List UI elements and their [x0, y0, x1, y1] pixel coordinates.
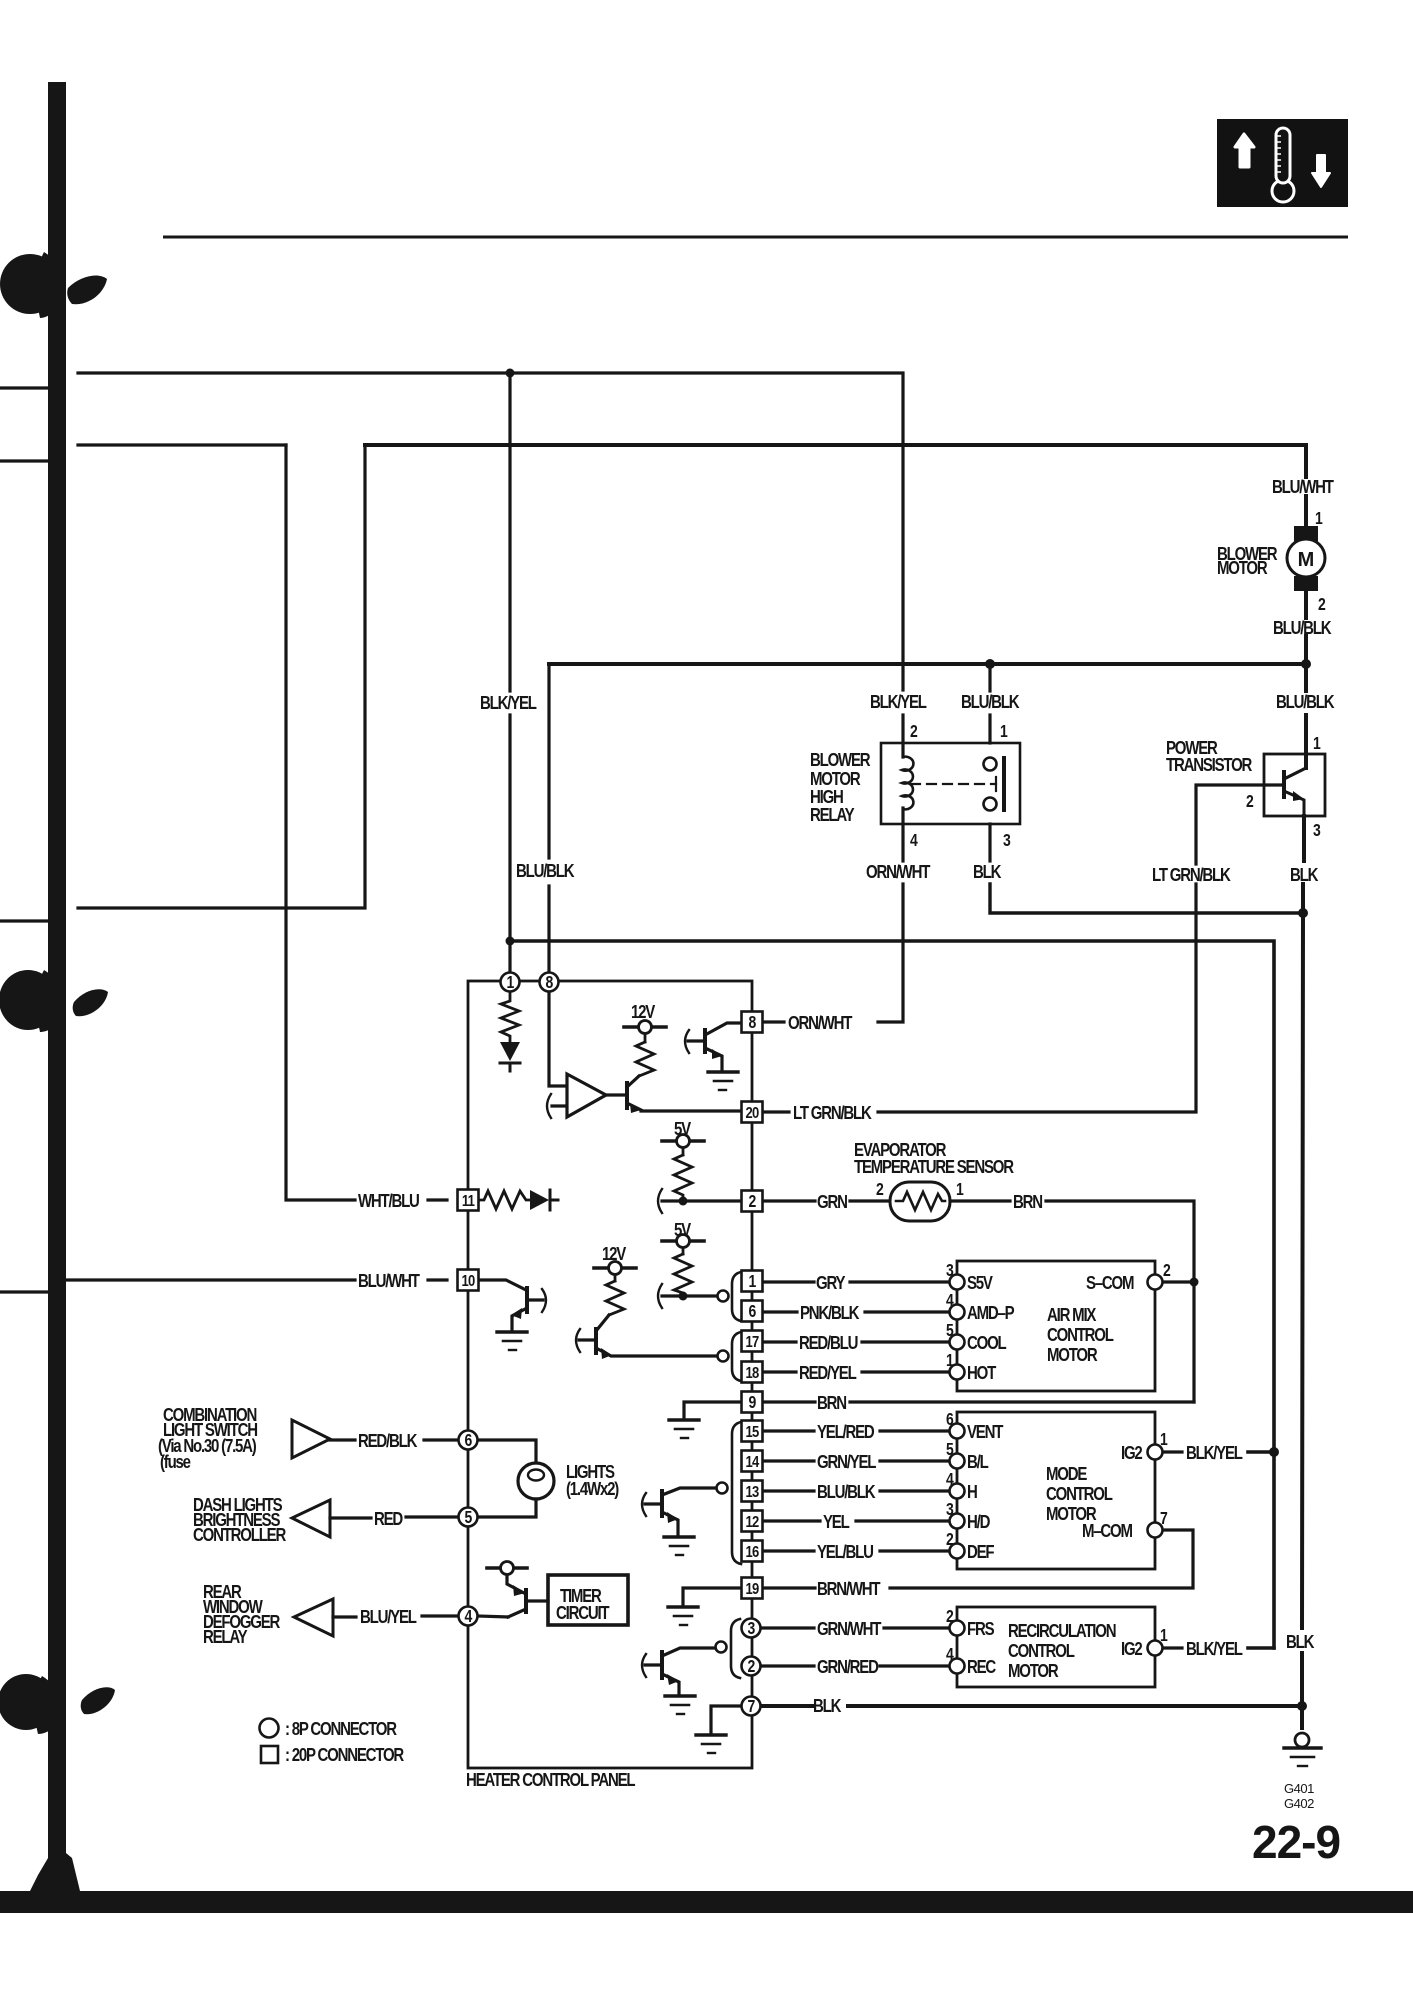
svg-text:17: 17 — [746, 1334, 760, 1351]
wire BLK drop from power transistor — [1302, 816, 1306, 861]
svg-text:BRN: BRN — [1013, 1192, 1042, 1213]
terminal IG2 mode — [1148, 1445, 1163, 1460]
wire BLU/WHT rail left stub — [78, 443, 286, 446]
svg-text:GRN/YEL: GRN/YEL — [817, 1452, 876, 1473]
wire left return — [78, 445, 365, 908]
bracket pins 15-16 — [732, 1422, 741, 1564]
wire PNK/BLK — [763, 1310, 797, 1313]
MAIN WIRING — [0, 369, 1325, 1769]
off-page arrow dash lights brightness controller — [292, 1500, 330, 1537]
wire BLU/WHT rail to blower motor — [365, 445, 1306, 477]
top separator rule — [163, 236, 1348, 239]
relay actuator dashed link — [911, 783, 996, 785]
ground (Q4 emitter) — [497, 1332, 527, 1350]
svg-text:9: 9 — [749, 1394, 757, 1413]
svg-text:1: 1 — [1315, 510, 1323, 529]
svg-text:4: 4 — [946, 1646, 954, 1665]
svg-text:8: 8 — [749, 1014, 757, 1033]
connector pin 3 (8P) — [742, 1619, 761, 1638]
connector pin 14 (20P) — [742, 1451, 763, 1472]
svg-text:20: 20 — [746, 1105, 760, 1122]
svg-text:7: 7 — [1160, 1510, 1167, 1529]
ground G401/G402 — [1284, 1733, 1321, 1766]
svg-text:HOT: HOT — [967, 1363, 997, 1384]
op-amp U1 buffer — [547, 1074, 627, 1118]
power source 5V (lower) — [662, 1235, 704, 1255]
svg-text:DEF: DEF — [967, 1542, 994, 1563]
terminal B/L — [950, 1454, 965, 1469]
svg-text:S5V: S5V — [967, 1273, 994, 1294]
wire S-COM — [1162, 1280, 1194, 1283]
svg-text:CONTROL: CONTROL — [1008, 1641, 1075, 1662]
svg-text:CIRCUIT: CIRCUIT — [556, 1603, 610, 1624]
svg-text:AMD–P: AMD–P — [967, 1303, 1015, 1324]
svg-text:BLU/WHT: BLU/WHT — [358, 1271, 421, 1292]
wire GRN/RED — [761, 1664, 814, 1667]
svg-text:1: 1 — [1000, 723, 1008, 742]
wire relay pin4 bottom — [901, 808, 904, 861]
svg-text:BLU/BLK: BLU/BLK — [1276, 692, 1335, 713]
wire GRN/WHT — [761, 1626, 814, 1629]
connector pin 13 (20P) — [742, 1481, 763, 1502]
diode D1 — [500, 1042, 520, 1061]
svg-text:FRS: FRS — [967, 1619, 994, 1640]
svg-text:BLU/BLK: BLU/BLK — [1273, 618, 1332, 639]
HEATER CONTROL PANEL box — [468, 981, 752, 1768]
svg-text:GRY: GRY — [816, 1273, 845, 1294]
connector pin 16 (20P) — [742, 1541, 763, 1562]
svg-text:18: 18 — [746, 1365, 760, 1382]
svg-text:: 8P CONNECTOR: : 8P CONNECTOR — [285, 1719, 397, 1740]
svg-text:MOTOR: MOTOR — [1217, 558, 1268, 579]
svg-text:8: 8 — [546, 974, 554, 993]
power source 12V (panel upper) — [624, 1021, 666, 1043]
svg-text:ORN/WHT: ORN/WHT — [788, 1013, 853, 1034]
svg-text:YEL: YEL — [823, 1512, 850, 1533]
svg-text:1: 1 — [956, 1181, 964, 1200]
wire BLU/BLK trunk — [549, 662, 1306, 666]
svg-text:RED/BLK: RED/BLK — [358, 1431, 417, 1452]
svg-text:COOL: COOL — [967, 1333, 1007, 1354]
wire YEL — [763, 1519, 820, 1522]
svg-text:1: 1 — [749, 1273, 757, 1292]
svg-text:2: 2 — [749, 1193, 757, 1212]
svg-text:CONTROLLER: CONTROLLER — [193, 1525, 286, 1546]
svg-text:2: 2 — [1163, 1262, 1171, 1281]
connector pin 17 (20P) — [742, 1331, 763, 1352]
continuation arc Q5 base — [642, 1493, 646, 1516]
resistor R4 — [674, 1155, 692, 1201]
svg-text:M–COM: M–COM — [1082, 1521, 1132, 1542]
svg-text:HEATER CONTROL PANEL: HEATER CONTROL PANEL — [466, 1770, 635, 1791]
svg-text:LT GRN/BLK: LT GRN/BLK — [1152, 865, 1231, 886]
resistor R5 — [674, 1254, 692, 1296]
transistor Q1 — [627, 1076, 742, 1113]
svg-text:1: 1 — [507, 974, 515, 993]
ground (Q2 emitter) — [708, 1072, 738, 1090]
svg-text:BLK/YEL: BLK/YEL — [1186, 1639, 1243, 1660]
wire GRN/YEL — [763, 1459, 814, 1462]
svg-text:BLOWER: BLOWER — [810, 750, 871, 771]
svg-text:1: 1 — [946, 1352, 954, 1371]
connector pin 15 (20P) — [742, 1421, 763, 1442]
wire page-edge stubs — [0, 386, 52, 389]
svg-text:4: 4 — [910, 832, 918, 851]
wire RED/BLK — [330, 1438, 355, 1441]
svg-text:: 20P CONNECTOR: : 20P CONNECTOR — [285, 1745, 404, 1766]
svg-text:1: 1 — [1160, 1431, 1168, 1450]
terminal REC — [950, 1659, 965, 1674]
svg-text:BLK: BLK — [1286, 1632, 1314, 1653]
svg-text:H/D: H/D — [967, 1512, 990, 1533]
svg-text:1: 1 — [1313, 735, 1321, 754]
svg-text:3: 3 — [1003, 832, 1011, 851]
svg-text:2: 2 — [1246, 793, 1254, 812]
resistor R2 (pin 11) — [478, 1191, 529, 1209]
svg-text:19: 19 — [746, 1581, 760, 1598]
svg-text:BLK/YEL: BLK/YEL — [1186, 1443, 1243, 1464]
svg-text:GRN/WHT: GRN/WHT — [817, 1619, 882, 1640]
connector pin 6 (20P) — [742, 1301, 763, 1322]
svg-text:ORN/WHT: ORN/WHT — [866, 862, 931, 883]
svg-text:IG2: IG2 — [1121, 1639, 1142, 1660]
continuation arc Q3 base — [576, 1329, 580, 1352]
wire YEL/RED — [763, 1429, 814, 1432]
svg-text:15: 15 — [746, 1424, 760, 1441]
timer circuit box — [548, 1575, 628, 1625]
svg-text:WHT/BLU: WHT/BLU — [358, 1191, 420, 1212]
legend 20P connector symbol — [261, 1746, 278, 1763]
transistor Q7 timer PNP — [477, 1562, 548, 1618]
connector pin 9 (20P) — [742, 1392, 763, 1413]
mode control motor box — [957, 1412, 1155, 1569]
wire relay pin2 top — [901, 715, 904, 757]
lamp L1 lights — [478, 1440, 554, 1517]
svg-text:M: M — [1298, 549, 1315, 571]
svg-text:PNK/BLK: PNK/BLK — [800, 1303, 859, 1324]
svg-text:MOTOR: MOTOR — [1008, 1661, 1059, 1682]
node junction 5V to pins 1/6 — [679, 1292, 688, 1301]
continuation arc Q6 base — [642, 1654, 646, 1677]
continuation arc Q4 base — [542, 1289, 546, 1312]
svg-text:5V: 5V — [674, 1220, 692, 1241]
svg-text:BRN: BRN — [817, 1393, 846, 1414]
svg-text:BLK: BLK — [813, 1696, 841, 1717]
svg-text:BLK/YEL: BLK/YEL — [870, 692, 927, 713]
resistor R3 (12V pull-up) — [636, 1042, 654, 1076]
connector pin 1 (20P) — [742, 1271, 763, 1292]
transistor Q5 (mode group) — [642, 1488, 716, 1536]
svg-text:YEL/BLU: YEL/BLU — [817, 1542, 874, 1563]
temperature control icon — [1217, 119, 1348, 207]
wire BLU/WHT to pin 10 — [63, 1278, 355, 1281]
svg-text:12V: 12V — [602, 1244, 627, 1265]
terminal M-COM — [1148, 1523, 1163, 1538]
svg-text:16: 16 — [746, 1544, 760, 1561]
svg-text:14: 14 — [746, 1454, 760, 1471]
svg-text:2: 2 — [946, 1608, 954, 1627]
connector pin 18 (20P) — [742, 1362, 763, 1383]
wire BLK/YEL drop to panel — [508, 373, 511, 691]
resistor R6 — [606, 1281, 624, 1315]
terminal DEF — [950, 1544, 965, 1559]
air mix control motor box — [957, 1261, 1155, 1391]
svg-text:2: 2 — [1318, 596, 1326, 615]
svg-text:REC: REC — [967, 1657, 996, 1678]
node junction at heater feed — [506, 937, 515, 946]
node junction 5V to pin 2 — [679, 1197, 688, 1206]
svg-text:VENT: VENT — [967, 1422, 1004, 1443]
svg-text:5: 5 — [465, 1509, 473, 1528]
svg-text:IG2: IG2 — [1121, 1443, 1142, 1464]
svg-text:3: 3 — [1313, 822, 1321, 841]
connector pin 12 (20P) — [742, 1511, 763, 1532]
terminal S5V — [950, 1275, 965, 1290]
svg-text:12V: 12V — [631, 1002, 656, 1023]
svg-text:12: 12 — [746, 1514, 760, 1531]
wire base LT GRN/BLK — [1196, 785, 1284, 864]
svg-text:RED/BLU: RED/BLU — [799, 1333, 858, 1354]
svg-text:BLU/BLK: BLU/BLK — [961, 692, 1020, 713]
svg-text:4: 4 — [465, 1608, 473, 1627]
terminal H/D — [950, 1514, 965, 1529]
svg-text:3: 3 — [946, 1262, 954, 1281]
wire WHT/BLU drop — [286, 445, 355, 1200]
wire RED/YEL — [763, 1370, 796, 1373]
wire power transistor pin1 drop BLU/BLK — [1304, 664, 1308, 691]
svg-text:BLK: BLK — [973, 862, 1001, 883]
evaporator temperature sensor RT1 — [763, 1182, 1194, 1402]
svg-text:CONTROL: CONTROL — [1047, 1325, 1114, 1346]
svg-text:RED/YEL: RED/YEL — [799, 1363, 857, 1384]
terminal HOT — [950, 1365, 965, 1380]
svg-text:1: 1 — [1160, 1627, 1168, 1646]
power transistor Q8 — [763, 754, 1325, 1112]
off-page arrow combination light switch — [292, 1420, 330, 1458]
ground (pin 19) — [668, 1588, 742, 1625]
node junction IG2 feed — [1269, 1447, 1279, 1457]
svg-text:BLU/YEL: BLU/YEL — [360, 1607, 417, 1628]
svg-text:13: 13 — [746, 1484, 760, 1501]
diode D2 — [530, 1190, 549, 1210]
connector pin 1 (8P top) — [501, 973, 520, 992]
bracket pins 3-2 — [731, 1619, 740, 1678]
ground (pin 9) — [669, 1402, 742, 1438]
svg-text:RECIRCULATION: RECIRCULATION — [1008, 1621, 1116, 1642]
svg-text:10: 10 — [462, 1273, 476, 1290]
svg-text:3: 3 — [748, 1620, 756, 1639]
wire IG2 recirc BLK/YEL — [1161, 1646, 1182, 1649]
svg-text:6: 6 — [465, 1432, 473, 1451]
wire BLU/YEL — [333, 1615, 356, 1618]
svg-text:2: 2 — [910, 723, 918, 742]
wire BLK/YEL feed to motors — [510, 941, 1274, 1648]
relay contact — [984, 758, 997, 771]
connector tap circle pin 13 — [717, 1483, 728, 1494]
svg-text:YEL/RED: YEL/RED — [817, 1422, 875, 1443]
node junction BLU/BLK at relay — [985, 659, 995, 669]
connector pin 10 (20P left) — [458, 1270, 479, 1291]
connector pin 2 (8P) — [742, 1657, 761, 1676]
svg-text:4: 4 — [946, 1292, 954, 1311]
svg-text:S–COM: S–COM — [1086, 1273, 1134, 1294]
svg-text:BLK/YEL: BLK/YEL — [480, 693, 537, 714]
relay K1 blower motor high relay — [763, 715, 1303, 1022]
continuation arc GRN — [658, 1189, 662, 1213]
connector pin 8 (8P top) — [540, 973, 559, 992]
node junction BLU/BLK trunk right — [1301, 659, 1311, 669]
wire BLK bottom — [761, 1704, 812, 1708]
wire relay pin1 drop BLU/BLK — [988, 664, 991, 691]
wire GRY — [763, 1280, 814, 1283]
node junction BLK ground — [1297, 1701, 1307, 1711]
svg-text:5V: 5V — [674, 1119, 692, 1140]
svg-text:RED: RED — [374, 1509, 403, 1530]
relay coil — [902, 757, 913, 810]
node junction BLK at transistor drop — [1298, 908, 1308, 918]
svg-text:BLU/BLK: BLU/BLK — [516, 861, 575, 882]
svg-text:3: 3 — [946, 1501, 954, 1520]
blower motor M1 — [1287, 496, 1325, 664]
svg-text:RELAY: RELAY — [810, 805, 854, 826]
resistor R1 (from connector 1) — [501, 991, 519, 1041]
wire M-COM to pin 19 BRN/WHT — [890, 1530, 1193, 1588]
transistor Q3 — [576, 1315, 716, 1359]
svg-text:G401: G401 — [1284, 1781, 1314, 1796]
connector pin 20 (20P) — [742, 1102, 763, 1123]
svg-text:(1.4Wx2): (1.4Wx2) — [566, 1479, 619, 1500]
legend 8P connector symbol — [260, 1719, 279, 1738]
ground (Q5 emitter) — [664, 1537, 694, 1555]
connector tap circle pins 1-6 — [718, 1291, 729, 1302]
svg-text:7: 7 — [748, 1698, 755, 1717]
terminal S-COM — [1148, 1275, 1163, 1290]
connector pin 19 (20P) — [742, 1578, 763, 1599]
svg-text:6: 6 — [749, 1303, 757, 1322]
svg-text:MOTOR: MOTOR — [1047, 1345, 1098, 1366]
power source 12V (lower) — [594, 1262, 636, 1282]
svg-text:CONTROL: CONTROL — [1046, 1484, 1113, 1505]
connector tap circle pins 3-2 — [716, 1642, 727, 1653]
continuation arc 5V line — [658, 1284, 662, 1308]
connector tap circle pins 17-18 — [718, 1351, 729, 1362]
connector pin 11 (20P left) — [458, 1190, 479, 1211]
connector pin 7 (8P) — [742, 1697, 761, 1716]
ground (pin 7) — [696, 1706, 742, 1753]
svg-text:BLU/BLK: BLU/BLK — [817, 1482, 876, 1503]
continuation arc op-amp input — [547, 1094, 551, 1118]
svg-text:6: 6 — [946, 1411, 954, 1430]
wire relay pin3 bottom BLK — [988, 824, 991, 861]
power source 5V (upper) — [662, 1135, 704, 1156]
bracket pins 17-18 — [732, 1332, 741, 1381]
terminal IG2 recirc — [1148, 1641, 1163, 1656]
off-page arrow rear window defogger relay — [294, 1599, 333, 1636]
svg-text:(fuse: (fuse — [160, 1452, 191, 1473]
svg-text:MODE: MODE — [1046, 1464, 1087, 1485]
wire YEL/BLU — [763, 1549, 814, 1552]
node junction BLK/YEL rail — [506, 369, 515, 378]
terminal FRS — [950, 1621, 965, 1636]
svg-text:G402: G402 — [1284, 1796, 1314, 1811]
svg-text:5: 5 — [946, 1322, 954, 1341]
wire IG2 mode BLK/YEL — [1161, 1450, 1182, 1453]
svg-text:GRN/RED: GRN/RED — [817, 1657, 879, 1678]
wire RED — [330, 1516, 371, 1519]
transistor Q2 — [685, 1023, 742, 1070]
svg-text:BLU/WHT: BLU/WHT — [1272, 477, 1335, 498]
terminal AMD-P — [950, 1305, 965, 1320]
connector pin 8 (20P) — [742, 1012, 763, 1033]
svg-text:22-9: 22-9 — [1252, 1816, 1340, 1868]
svg-text:5: 5 — [946, 1441, 954, 1460]
wire BLU/BLK to H — [763, 1489, 814, 1492]
wire BRN to pin 9 — [763, 1400, 815, 1403]
svg-text:H: H — [967, 1482, 977, 1503]
wire BLU/BLK drop to connector 8 — [547, 664, 550, 858]
terminal VENT — [950, 1424, 965, 1439]
connector pin 6 (8P left) — [459, 1431, 478, 1450]
svg-text:BLK: BLK — [1290, 865, 1318, 886]
svg-text:LT GRN/BLK: LT GRN/BLK — [793, 1103, 872, 1124]
svg-text:2: 2 — [946, 1531, 954, 1550]
svg-text:AIR MIX: AIR MIX — [1047, 1305, 1096, 1326]
ground (Q6 emitter) — [665, 1696, 695, 1714]
terminal COOL — [950, 1335, 965, 1350]
connector pin 4 (8P left) — [459, 1607, 478, 1626]
bracket pins 1-6 — [732, 1272, 741, 1321]
connector pin 2 (20P) — [742, 1191, 763, 1212]
svg-text:2: 2 — [876, 1181, 884, 1200]
svg-text:BRN/WHT: BRN/WHT — [817, 1579, 881, 1600]
terminal H — [950, 1484, 965, 1499]
node junction S-COM/BRN — [1190, 1278, 1199, 1287]
svg-text:4: 4 — [946, 1471, 954, 1490]
svg-text:2: 2 — [748, 1658, 756, 1677]
transistor Q4 (at pin 10) — [478, 1280, 546, 1331]
svg-text:TEMPERATURE SENSOR: TEMPERATURE SENSOR — [854, 1157, 1014, 1178]
svg-text:RELAY: RELAY — [203, 1627, 247, 1648]
svg-text:GRN: GRN — [817, 1192, 847, 1213]
wire connector 8 to op-amp — [549, 991, 566, 1086]
svg-text:B/L: B/L — [967, 1452, 989, 1473]
recirculation control motor box — [957, 1607, 1155, 1687]
continuation arc Q2 base — [685, 1030, 689, 1053]
transistor Q6 (recirc group) — [642, 1648, 715, 1695]
connector pin 5 (8P left) — [459, 1508, 478, 1527]
wire RED/BLU — [763, 1340, 796, 1343]
svg-text:11: 11 — [462, 1193, 475, 1210]
wire top rail BLK/YEL — [78, 373, 903, 690]
svg-text:TRANSISTOR: TRANSISTOR — [1166, 755, 1252, 776]
